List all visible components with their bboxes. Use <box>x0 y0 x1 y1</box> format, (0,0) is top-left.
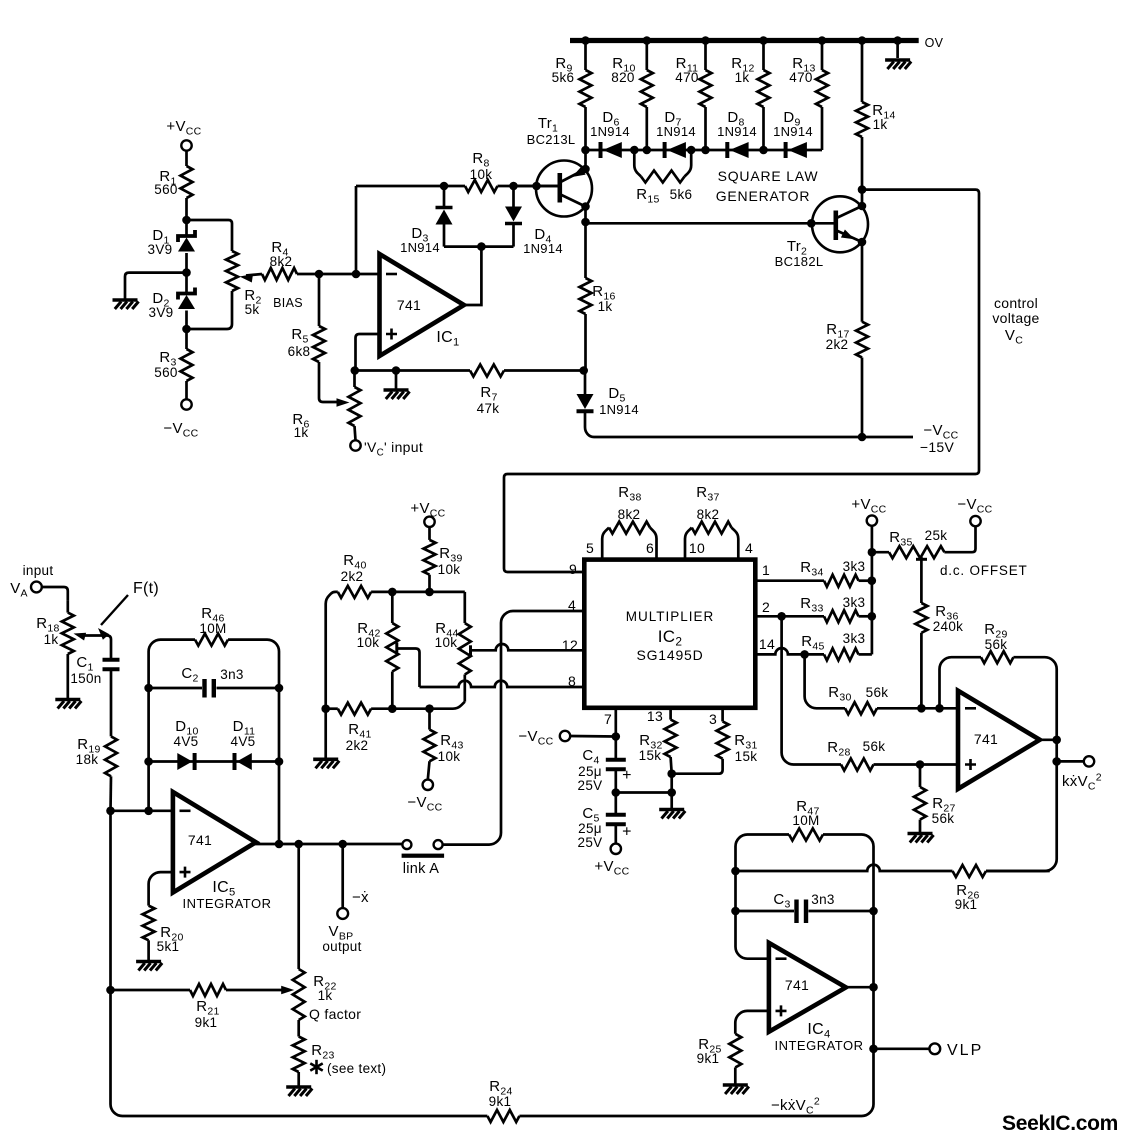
svg-text:1k: 1k <box>598 299 613 314</box>
diode D5 (1N914) <box>577 371 639 418</box>
svg-text:1N914: 1N914 <box>656 124 696 139</box>
svg-text:BC182L: BC182L <box>775 254 824 269</box>
svg-text:4V5: 4V5 <box>174 734 199 749</box>
node <box>759 36 768 45</box>
ground (near IC1 + input) <box>384 390 410 399</box>
svg-text:1N914: 1N914 <box>590 124 630 139</box>
op-amp IC5 (741) <box>173 792 272 911</box>
resistor R44 (10k) <box>435 592 471 702</box>
svg-text:470: 470 <box>789 70 812 85</box>
node: R7/R16/D5 junction <box>579 366 588 375</box>
diode D9 (1N914) <box>773 109 813 158</box>
node <box>869 983 878 992</box>
pin 12 <box>562 637 578 653</box>
pin 3 (bottom) <box>709 711 717 727</box>
pin 8 <box>568 673 576 689</box>
capacitor C1 (150n) <box>70 654 119 686</box>
wire: minus corner to IC4 <box>736 871 769 959</box>
node <box>818 36 827 45</box>
resistor R25 (9k1) <box>697 1034 742 1084</box>
wire: plus to R25 <box>735 1011 769 1034</box>
node: R15 left <box>630 146 639 155</box>
pin 14 <box>759 636 775 652</box>
power +Vcc terminal (below C5) <box>594 844 629 878</box>
svg-text:1N914: 1N914 <box>400 240 440 255</box>
label -xdot <box>352 889 369 906</box>
input terminal VA <box>10 580 42 600</box>
resistor R1 <box>154 166 192 198</box>
svg-text:3k3: 3k3 <box>843 595 866 610</box>
svg-text:1: 1 <box>762 562 770 578</box>
svg-text:8k2: 8k2 <box>697 507 720 522</box>
resistor R40 (2k2) <box>338 552 371 598</box>
node: left rail minus <box>106 807 115 816</box>
resistor R20 (5k1) <box>143 906 184 961</box>
power -Vcc terminal (R43) <box>407 780 442 814</box>
wire <box>809 910 874 913</box>
svg-text:5k6: 5k6 <box>552 70 575 85</box>
power -Vcc terminal (pin 7) <box>518 728 570 748</box>
op-amp IC3 (741) <box>958 691 1040 789</box>
wire: pin 8 line with hops <box>420 681 585 687</box>
node: Tr2 collector junction <box>858 185 867 194</box>
wire: R4 to IC1 inverting input <box>297 273 380 276</box>
svg-text:MULTIPLIER: MULTIPLIER <box>626 609 715 624</box>
node <box>612 788 621 797</box>
svg-text:3V9: 3V9 <box>149 305 174 320</box>
potentiometer R18 (1k) <box>36 601 74 699</box>
node <box>869 907 878 916</box>
resistor R37 (8k2) <box>685 484 738 560</box>
op-amp IC1 (741) <box>380 254 465 356</box>
node <box>701 36 710 45</box>
wire: R45 node to R30 line <box>805 654 845 708</box>
node <box>731 907 740 916</box>
node: D2/R3/R2 junction <box>182 325 191 334</box>
wire: C4/C5 mid to ground stub <box>616 791 672 794</box>
node <box>1052 736 1061 745</box>
wire: feedback vertical <box>355 186 358 274</box>
wire <box>187 291 232 329</box>
node: R22 riser <box>294 840 303 849</box>
resistor R38 (8k2) <box>602 484 656 560</box>
svg-text:control: control <box>994 295 1038 311</box>
svg-text:1N914: 1N914 <box>717 124 757 139</box>
wire <box>670 774 673 809</box>
node <box>144 757 153 766</box>
wire: minus line IC5 <box>111 809 173 812</box>
resistor R46 (10M) <box>149 605 279 844</box>
node: D1/D2/ground junction <box>182 268 191 277</box>
label: control voltage Vc <box>992 295 1039 347</box>
node <box>858 36 867 45</box>
resistor R29 (56k) <box>940 621 1057 740</box>
node: R27 top <box>916 760 925 769</box>
svg-text:5k: 5k <box>245 302 260 317</box>
svg-text:+: + <box>622 767 632 784</box>
wire <box>614 826 617 844</box>
terminal VBP output <box>322 908 361 954</box>
node <box>1052 757 1061 766</box>
diode D3 (1N914) <box>400 186 452 255</box>
wiper of R44 to pin 12 line <box>471 644 585 656</box>
wire <box>185 253 188 293</box>
svg-text:3k3: 3k3 <box>843 559 866 574</box>
resistor R5 <box>288 326 325 362</box>
node <box>667 788 676 797</box>
svg-text:5k6: 5k6 <box>670 187 693 202</box>
node: R32/R31/ground <box>667 769 676 778</box>
svg-text:SQUARE LAW: SQUARE LAW <box>718 168 819 184</box>
svg-text:14: 14 <box>759 636 775 652</box>
terminal VLP <box>929 1042 983 1059</box>
node <box>581 146 590 155</box>
wire: pin 7 stub <box>614 708 617 758</box>
node: base wire on Tr1 circle edge <box>532 182 541 191</box>
wire: top line R40 <box>326 592 465 709</box>
wire: R26 line with hop <box>736 865 953 871</box>
svg-text:18k: 18k <box>76 752 99 767</box>
wire: left rail <box>109 811 112 990</box>
svg-text:47k: 47k <box>477 401 500 416</box>
resistor R9 <box>552 41 592 151</box>
wire <box>185 151 188 166</box>
resistor R45 (3k3) <box>801 631 872 660</box>
node <box>643 36 652 45</box>
svg-text:1N914: 1N914 <box>523 241 563 256</box>
capacitor C4 (25u 25V) <box>578 747 632 793</box>
wire: R41 line <box>326 702 465 709</box>
resistor R31 (15k) <box>672 708 758 774</box>
resistor R14 <box>856 41 896 190</box>
potentiometer R2 (BIAS) <box>226 251 303 317</box>
diode D8 (1N914) <box>717 109 757 158</box>
svg-text:10M: 10M <box>792 813 819 828</box>
resistor R41 (2k2) <box>338 703 372 753</box>
wire <box>187 220 233 251</box>
svg-text:56k: 56k <box>985 637 1008 652</box>
wire <box>125 273 187 299</box>
node <box>893 36 902 45</box>
resistor R32 (15k) <box>639 708 677 774</box>
resistor R43 (10k) <box>424 709 464 780</box>
svg-text:10k: 10k <box>470 167 493 182</box>
wire <box>861 242 864 322</box>
label: d.c. OFFSET <box>940 563 1028 578</box>
wire <box>944 526 975 552</box>
wire <box>584 314 587 371</box>
wire <box>614 771 617 813</box>
ground (bus) <box>885 60 911 69</box>
pin 13 <box>647 708 663 724</box>
svg-text:56k: 56k <box>866 685 889 700</box>
svg-text:4: 4 <box>745 540 753 556</box>
resistor R21 (9k1) <box>190 984 226 1030</box>
svg-text:1k: 1k <box>873 117 888 132</box>
wire: left rail down <box>109 776 112 811</box>
svg-text:10M: 10M <box>199 621 226 636</box>
node: VLP branch <box>869 1045 878 1054</box>
wire <box>110 671 113 736</box>
node: D3 top <box>440 182 449 191</box>
resistor R16 <box>580 278 616 314</box>
wire: base of Tr1 <box>514 185 559 188</box>
potentiometer R35 (25k) <box>889 528 947 603</box>
wire: R22 riser <box>297 844 300 969</box>
pin 2 <box>762 599 770 615</box>
diode D11 (4V5) <box>231 718 256 770</box>
svg-text:−15V: −15V <box>920 439 955 455</box>
wire <box>874 763 959 766</box>
svg-text:1k: 1k <box>318 988 333 1003</box>
svg-text:3n3: 3n3 <box>220 667 243 682</box>
pin 9 <box>569 561 577 577</box>
wire <box>319 362 338 402</box>
node: D4 top <box>509 182 518 191</box>
svg-text:15k: 15k <box>639 748 662 763</box>
diode D10 (4V5) <box>174 718 199 770</box>
node <box>321 704 330 713</box>
pin 6 <box>646 540 654 556</box>
node <box>701 146 710 155</box>
diode D4 (1N914) <box>505 186 563 256</box>
svg-text:link A: link A <box>403 861 439 877</box>
node <box>868 576 877 585</box>
resistor R17 <box>826 321 868 358</box>
svg-text:6k8: 6k8 <box>288 344 311 359</box>
svg-text:+: + <box>622 824 632 841</box>
svg-text:OV: OV <box>925 36 944 50</box>
svg-text:BIAS: BIAS <box>273 296 303 310</box>
node <box>858 202 867 211</box>
svg-text:15k: 15k <box>735 749 758 764</box>
wire: pin 2 line <box>755 615 872 618</box>
svg-text:8k2: 8k2 <box>618 507 641 522</box>
node: Tr1 collector branch <box>581 218 590 227</box>
arrow into R22 <box>281 986 294 994</box>
power +Vcc terminal (right rail) <box>851 496 886 526</box>
wire <box>353 371 356 388</box>
svg-text:6: 6 <box>646 540 654 556</box>
svg-text:470: 470 <box>675 70 698 85</box>
node <box>581 36 590 45</box>
wire: IC1 + input to R7 line <box>356 334 584 371</box>
svg-text:25V: 25V <box>578 835 603 850</box>
wire: R28 line <box>782 616 841 764</box>
resistor R33 (3k3) <box>800 595 865 622</box>
node <box>868 612 877 621</box>
wire <box>185 311 188 350</box>
op-amp IC4 (741) <box>769 943 864 1053</box>
power +Vcc terminal (R39) <box>410 500 445 527</box>
zener diode D2 (3V9) <box>149 288 195 321</box>
resistor R30 (56k) <box>828 684 888 714</box>
ground (below R20) <box>136 962 162 971</box>
svg-text:9: 9 <box>569 561 577 577</box>
wire: rail to R26 line <box>986 761 1057 871</box>
svg-text:4V5: 4V5 <box>231 734 256 749</box>
wire: IC4 output <box>846 986 874 989</box>
wire: R8 line <box>356 185 559 188</box>
svg-text:25μ: 25μ <box>578 821 602 836</box>
pin 1 <box>762 562 770 578</box>
ground (below R27) <box>908 834 934 843</box>
wire: diode row <box>586 149 823 152</box>
node: -Vcc line junction <box>858 433 867 442</box>
svg-text:2k2: 2k2 <box>826 337 849 352</box>
wire <box>395 371 398 390</box>
wire: D10 D11 line <box>149 760 279 763</box>
wire <box>297 1072 300 1086</box>
node: R15 right <box>687 146 696 155</box>
svg-text:25V: 25V <box>578 778 603 793</box>
node: R36 to minus line <box>917 704 926 713</box>
wire: +Vcc rail <box>871 526 874 655</box>
resistor R36 (240k) <box>915 603 963 634</box>
svg-text:741: 741 <box>397 297 421 313</box>
svg-text:9k1: 9k1 <box>195 1015 218 1030</box>
node: R39 bottom <box>425 588 434 597</box>
power -Vcc terminal (dc offset) <box>957 496 992 526</box>
wire: pin 1 line <box>755 579 872 582</box>
wire <box>428 527 431 540</box>
node: pin2/R28 branch <box>777 612 786 621</box>
node: VBP branch <box>338 840 347 849</box>
resistor R26 (9k1) <box>953 865 1050 912</box>
resistor R27 (56k) <box>914 765 956 833</box>
ground (below R40/R41) <box>313 759 339 768</box>
capacitor C2 (3n3) <box>181 665 243 698</box>
wire <box>318 274 321 326</box>
node <box>858 238 867 247</box>
wire <box>185 198 188 237</box>
ground (below R25) <box>723 1085 749 1094</box>
svg-text:SG1495D: SG1495D <box>636 647 703 663</box>
resistor R3 <box>154 349 192 381</box>
svg-text:741: 741 <box>188 832 212 848</box>
wiper arrow of R2 from R4 <box>240 274 263 283</box>
pin 10 <box>689 540 705 556</box>
bus 0V <box>570 36 944 50</box>
svg-text:560: 560 <box>154 365 177 380</box>
svg-text:10k: 10k <box>435 635 458 650</box>
resistor R19 (18k) <box>76 736 117 776</box>
svg-text:2k2: 2k2 <box>346 738 369 753</box>
resistor R28 (56k) <box>827 739 885 771</box>
wire: link A to pin 4 <box>443 611 584 845</box>
node: output feedback tap <box>477 242 486 251</box>
svg-text:820: 820 <box>611 70 634 85</box>
wire: C3 line <box>736 910 795 913</box>
svg-text:voltage: voltage <box>992 310 1039 326</box>
resistor R13 <box>789 41 828 151</box>
svg-text:10k: 10k <box>357 635 380 650</box>
node: feedback join on minus line <box>352 270 361 279</box>
wire <box>872 551 889 554</box>
svg-text:3n3: 3n3 <box>811 892 834 907</box>
wire <box>428 575 431 592</box>
resistor R4 <box>262 239 297 280</box>
resistor R39 (10k) <box>424 540 463 577</box>
wire: IC1 output to feedback <box>464 247 481 305</box>
node: Tr1 emitter exit <box>581 165 590 174</box>
ground (below R18) <box>55 700 81 709</box>
potentiometer R6 <box>292 387 360 440</box>
node: Tr1 collector exit <box>581 202 590 211</box>
pin 4 (left) <box>568 597 576 613</box>
wire <box>297 1020 300 1037</box>
potentiometer R22 (1k, Q factor) <box>293 969 362 1022</box>
svg-text:1N914: 1N914 <box>773 124 813 139</box>
wiper of R18 <box>74 633 112 658</box>
svg-text:560: 560 <box>154 182 177 197</box>
node: R5 top on minus line <box>315 270 324 279</box>
wiper arrow into R6 <box>337 398 350 407</box>
pin 5 <box>586 540 594 556</box>
resistor R12 <box>731 41 769 151</box>
node: R45 left / R30 branch <box>800 650 809 659</box>
label F(t) with arrow <box>98 580 159 640</box>
node: R42 top <box>388 588 397 597</box>
ground (below R32) <box>659 810 685 819</box>
wire <box>896 41 899 59</box>
node: R43 top <box>425 704 434 713</box>
zener diode D1 (3V9) <box>148 227 195 257</box>
resistor R7 <box>470 365 504 417</box>
svg-text:25k: 25k <box>925 528 948 543</box>
wire: control voltage loop <box>504 190 979 572</box>
svg-text:BC213L: BC213L <box>527 132 576 147</box>
node: R42 bottom <box>388 704 397 713</box>
svg-text:d.c. OFFSET: d.c. OFFSET <box>940 563 1028 578</box>
resistor R15 (5k6) <box>634 150 692 206</box>
svg-text:INTEGRATOR: INTEGRATOR <box>182 896 271 911</box>
wire <box>584 222 587 278</box>
transistor Tr2 (BC182L) <box>775 190 868 269</box>
svg-text:1N914: 1N914 <box>599 402 639 417</box>
svg-text:3k3: 3k3 <box>843 631 866 646</box>
wire: bottom rail <box>111 990 874 1116</box>
wire: Tr1 collector to Tr2 base <box>586 222 836 223</box>
svg-text:VLP: VLP <box>947 1042 983 1059</box>
capacitor C5 (25u 25V) <box>578 805 632 850</box>
ground (left of D2) <box>113 300 139 309</box>
resistor R34 (3k3) <box>800 559 865 587</box>
wire: D3-D4 bottom link <box>444 245 514 248</box>
svg-text:3: 3 <box>709 711 717 727</box>
svg-text:25μ: 25μ <box>578 764 602 779</box>
node <box>144 684 153 693</box>
wire <box>874 1047 930 1050</box>
wire: R21 line <box>111 989 286 992</box>
svg-text:10k: 10k <box>438 562 461 577</box>
wire <box>861 358 864 438</box>
wire: -Vcc -15V line <box>585 413 913 437</box>
resistor R8 <box>465 150 498 192</box>
svg-text:56k: 56k <box>932 811 955 826</box>
diode D7 (1N914) <box>656 109 696 158</box>
wire <box>920 633 923 709</box>
node: R6 top <box>351 366 360 375</box>
node <box>106 986 115 995</box>
svg-text:2k2: 2k2 <box>341 569 364 584</box>
power -Vcc terminal (below R3) <box>163 399 198 439</box>
svg-text:240k: 240k <box>933 619 963 634</box>
svg-text:−ẋ: −ẋ <box>352 889 369 906</box>
terminal 'Vc' input <box>350 439 423 459</box>
svg-text:9k1: 9k1 <box>697 1051 720 1066</box>
svg-text:5k1: 5k1 <box>157 939 180 954</box>
